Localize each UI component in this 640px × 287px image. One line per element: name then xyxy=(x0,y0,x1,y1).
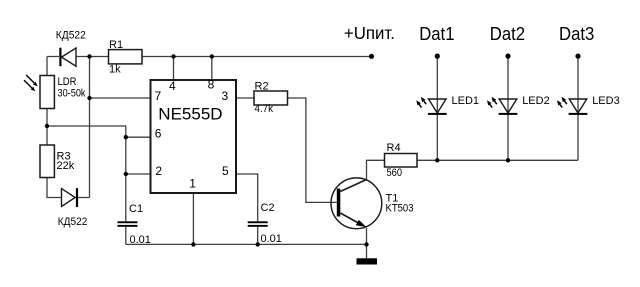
wire pin5 to C2 xyxy=(236,174,258,221)
terminal Dat2 xyxy=(490,24,525,59)
wire pin3 to R2 xyxy=(236,97,254,99)
svg-text:Dat2: Dat2 xyxy=(490,24,525,44)
LDR photoresistor xyxy=(24,75,86,109)
capacitor C2 xyxy=(248,202,282,245)
svg-text:C2: C2 xyxy=(261,202,275,214)
wire C2 down xyxy=(257,227,259,245)
svg-text:4: 4 xyxy=(169,79,176,93)
svg-text:560: 560 xyxy=(387,167,403,179)
wire pin8 xyxy=(211,57,213,81)
svg-text:LED3: LED3 xyxy=(592,95,620,107)
svg-text:R2: R2 xyxy=(255,81,269,93)
terminal Dat1 xyxy=(419,24,454,59)
op-amp U1 NE555D body xyxy=(151,80,237,193)
svg-text:КД522: КД522 xyxy=(58,216,88,228)
svg-text:NE555D: NE555D xyxy=(158,105,222,124)
svg-text:Dat3: Dat3 xyxy=(559,24,594,44)
svg-text:0.01: 0.01 xyxy=(261,233,282,245)
svg-text:1k: 1k xyxy=(109,64,121,76)
pin 5 label xyxy=(222,164,229,178)
LED1 xyxy=(416,95,479,115)
svg-text:8: 8 xyxy=(208,78,215,92)
wire node column x89 xyxy=(78,57,90,198)
resistor R2 xyxy=(254,81,288,116)
node dot pin4 xyxy=(171,54,175,58)
svg-text:22k: 22k xyxy=(57,160,75,172)
transistor Q1 T1 KT503 xyxy=(331,178,414,229)
wire pin7 xyxy=(90,97,151,99)
wire LED1 column xyxy=(436,58,438,160)
node dot LED1 rail xyxy=(435,158,439,162)
svg-text:KT503: KT503 xyxy=(386,203,414,215)
wire bottom rail xyxy=(126,243,367,245)
capacitor C1 xyxy=(118,203,151,246)
wire LED3 column xyxy=(577,58,579,160)
node dot pin6 xyxy=(124,135,128,139)
svg-text:LED2: LED2 xyxy=(522,95,550,107)
wire LED2 column xyxy=(507,58,509,160)
node dot pin2 xyxy=(124,172,128,176)
diode D2 KD522 xyxy=(58,188,88,228)
wire pin1 down xyxy=(192,193,194,244)
svg-text:LED1: LED1 xyxy=(452,95,480,107)
pin 7 label xyxy=(155,89,162,103)
svg-text:5: 5 xyxy=(222,164,229,178)
LED3 xyxy=(557,95,620,115)
pin 3 label xyxy=(222,89,229,103)
node dot pin8 xyxy=(210,54,214,58)
wire top rail xyxy=(47,56,372,58)
wire pin6 pin2 jog xyxy=(47,126,151,221)
pin 6 label xyxy=(155,127,162,141)
wire left column xyxy=(47,57,62,198)
wire C1 down xyxy=(125,227,127,245)
resistor R4 xyxy=(385,142,418,179)
resistor R1 xyxy=(109,39,143,76)
svg-text:Dat1: Dat1 xyxy=(419,24,454,44)
node dot LDR R3 xyxy=(45,124,49,128)
wire collector to R4 xyxy=(367,160,385,179)
svg-text:R1: R1 xyxy=(109,39,123,51)
wire pin4 xyxy=(173,57,175,81)
node dot C2 rail xyxy=(256,242,260,246)
svg-text:30-50k: 30-50k xyxy=(58,88,86,100)
pin 1 label xyxy=(189,176,196,190)
wire emitter to ground xyxy=(366,228,368,258)
pin 8 label xyxy=(208,78,215,92)
diode D1 KD522 xyxy=(56,29,86,66)
svg-text:R4: R4 xyxy=(387,142,401,154)
node dot emitter rail xyxy=(364,242,368,246)
pin 2 label xyxy=(155,164,162,178)
svg-text:4.7k: 4.7k xyxy=(255,103,274,115)
wire R2 to base xyxy=(288,98,337,202)
svg-text:КД522: КД522 xyxy=(56,29,86,41)
power terminal +U xyxy=(344,23,395,59)
svg-text:+Uпит.: +Uпит. xyxy=(344,23,395,43)
svg-text:7: 7 xyxy=(155,89,162,103)
node dot D1 junction xyxy=(87,54,91,58)
resistor R3 xyxy=(40,145,75,178)
node dot LED2 rail xyxy=(506,158,510,162)
pin 4 label xyxy=(169,79,176,93)
terminal Dat3 xyxy=(559,24,594,59)
LED2 xyxy=(487,95,550,115)
svg-text:LDR: LDR xyxy=(58,76,77,88)
svg-text:C1: C1 xyxy=(129,203,143,215)
node dot pin1 rail xyxy=(191,242,195,246)
svg-text:1: 1 xyxy=(189,176,196,190)
svg-text:6: 6 xyxy=(155,127,162,141)
svg-text:0.01: 0.01 xyxy=(130,234,151,246)
wire R4 output rail xyxy=(417,159,578,161)
node dot pin7 xyxy=(87,96,91,100)
svg-text:3: 3 xyxy=(222,89,229,103)
svg-text:2: 2 xyxy=(155,164,162,178)
ground xyxy=(357,258,378,264)
